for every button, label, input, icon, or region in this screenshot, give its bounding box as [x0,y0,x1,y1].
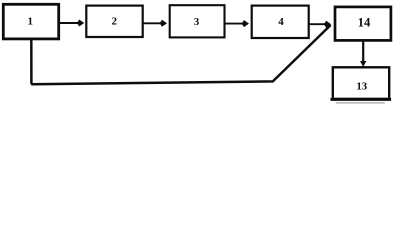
block 4 [252,6,309,38]
block 2 [86,6,142,37]
feedback wire from block 1 down, right along bottom, diagonally up into block 14 [31,26,330,84]
wire arrow 2 to 3 [144,22,162,24]
block 14 [335,7,391,41]
svg-text:4: 4 [278,16,284,28]
svg-text:1: 1 [27,16,33,28]
wire arrow 14 to 13 [362,41,364,62]
block 3 [170,5,225,37]
svg-text:2: 2 [112,16,118,28]
block 1 [3,4,58,39]
wire arrow 1 to 2 [59,22,79,24]
scanner shadow under block 13 [337,102,384,104]
svg-text:13: 13 [356,81,367,93]
svg-text:14: 14 [358,16,371,30]
svg-text:3: 3 [194,16,200,28]
block 13 [333,67,389,99]
block 13 thick bottom edge [332,98,390,101]
wire arrow 3 to 4 [226,23,244,25]
wire arrow 4 to 14 [309,23,325,25]
